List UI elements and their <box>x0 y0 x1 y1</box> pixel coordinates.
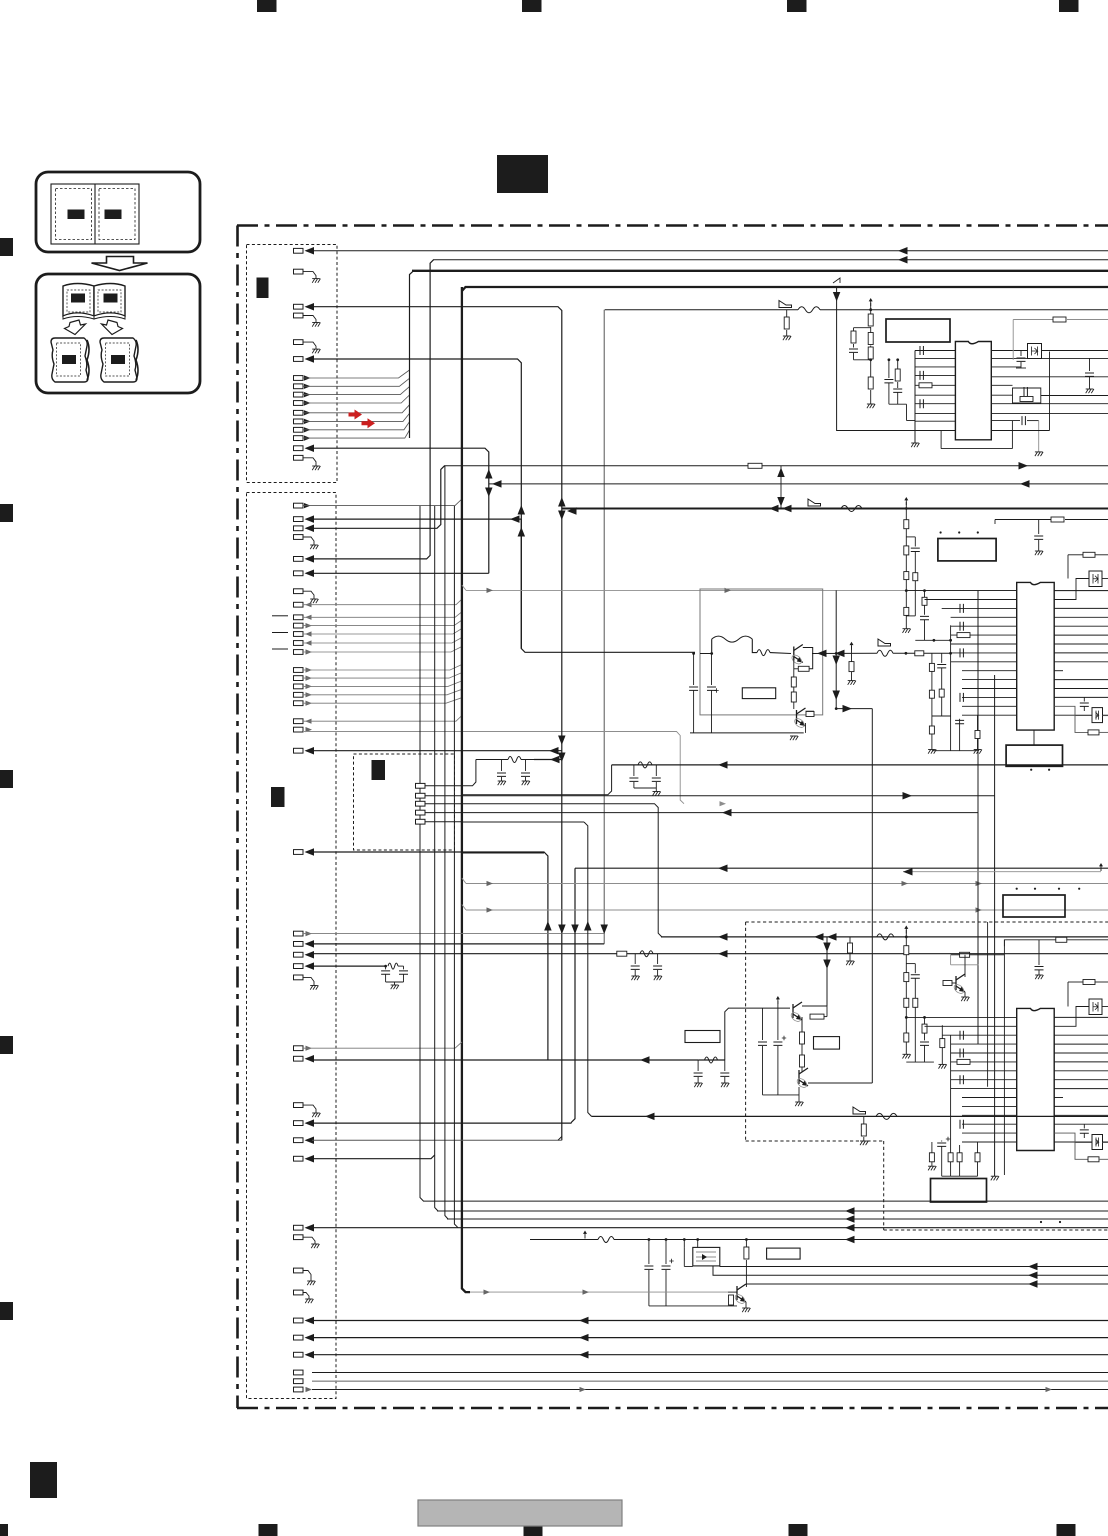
branch top link <box>854 327 871 329</box>
sub connector pin 5 <box>416 819 426 824</box>
IC3 AM tuner IC <box>1017 1008 1054 1150</box>
registration mark bottom left corner <box>0 1524 8 1536</box>
Q2 collector gray link <box>806 710 815 712</box>
FM block bottom rail <box>690 732 804 734</box>
arrow on bus y250 <box>898 247 908 255</box>
AM block cap 2 electrolytic <box>773 1042 782 1045</box>
IC1 left pin wire 7 <box>915 403 955 405</box>
IC3 left pin wire 5 <box>951 1052 1017 1054</box>
IC2 right pin wire 1 <box>1054 590 1108 592</box>
wire x575 corner to pin31 <box>312 1122 572 1124</box>
wire CN1-6 right then down at x521 <box>312 359 521 649</box>
IC3 right pin wire 7 <box>1054 1070 1108 1072</box>
CN2 pin 11 <box>294 632 304 637</box>
legend open book black block right <box>104 294 118 303</box>
wrap line y1159 with resistor <box>1075 1143 1088 1160</box>
wire crystal to right <box>1042 350 1108 352</box>
connector box CN2 dashed <box>247 493 337 1399</box>
resistor R-osc3 <box>870 346 872 348</box>
CN2 pin 33 <box>294 1156 304 1161</box>
CN2 pin 32 <box>294 1138 304 1143</box>
capacitor stack under IC3 2 <box>941 1139 943 1142</box>
sub connector pin 1 <box>416 783 426 788</box>
wire CN2-20 gray to x680 down to y804 <box>303 732 684 804</box>
arrow right at y708 <box>836 708 872 710</box>
wire y822 from bus to x588 <box>462 821 584 823</box>
wire IC1 row 430 to right <box>991 430 1049 432</box>
IC3 right pin wire 4 <box>1054 1043 1108 1045</box>
wire CN2-23 to x604 <box>303 933 604 935</box>
AM LC inductor <box>705 1057 718 1063</box>
FM rail y716 <box>932 715 951 717</box>
AM RC inductor <box>640 951 653 957</box>
feed segment y554 with resistor <box>1068 554 1083 556</box>
legend big down arrow <box>92 257 148 271</box>
AM branch capacitor <box>914 964 916 974</box>
vertical x978 down to AM section <box>977 590 979 1044</box>
bus bundle vertical x409 <box>410 271 414 438</box>
wire y853 mid <box>462 852 544 854</box>
IC1 right pin row 395 <box>991 394 1012 396</box>
registration mark top 1 <box>257 0 277 12</box>
FM power ladder top tick <box>905 498 907 505</box>
CN1 pin 2 ground <box>294 269 304 274</box>
CN2 pin 13 <box>294 650 304 655</box>
black page-number square bottom left <box>30 1462 57 1498</box>
capacitor on IC3 row 1080 <box>960 1075 963 1084</box>
LC2 inductor <box>638 762 652 768</box>
vertical x1049 right of IC1 <box>1049 352 1051 431</box>
wire CN2-24 to x604 corner <box>312 943 604 945</box>
squiggle on y508 <box>841 506 862 512</box>
legend torn page left <box>51 338 88 382</box>
gray line y883 from bus <box>462 878 466 884</box>
bus line y270 bold <box>412 270 1108 272</box>
bus line y287 bold from x462 <box>462 287 1108 291</box>
resistor R-osc5 <box>868 377 873 389</box>
FM branch capacitor <box>914 537 916 547</box>
resistor R-osc1 <box>868 314 873 326</box>
IC3 left pin wire 10 <box>962 1097 1017 1099</box>
legend spread black block right <box>105 210 122 220</box>
part label box FM <box>938 539 996 561</box>
FM cap x960 <box>959 719 961 751</box>
IC3 left pin wire 2 <box>925 1025 1017 1027</box>
AM ladder resistor 2 <box>904 973 909 982</box>
main bus vertical x462 bold <box>462 287 470 1292</box>
IC3 right pin wire 12 <box>1054 1114 1108 1116</box>
bundle vertical x445 <box>445 466 448 1219</box>
registration mark top 4 <box>1059 0 1079 12</box>
bus wire y1320 <box>312 1320 1108 1322</box>
CN2 pin 3 <box>294 526 304 531</box>
IC3 right pin wire 9 <box>1054 1088 1108 1090</box>
Q1 collector loop resistor <box>803 648 813 669</box>
IC2 left pin wire 13 <box>962 696 1017 698</box>
CN2 pin 40 <box>294 1352 304 1357</box>
wire CN1-7 into bus bundle <box>303 370 410 378</box>
IC3 left pin wire 12 <box>962 1114 1017 1116</box>
FM ladder ground <box>903 629 911 633</box>
capacitor above trimmer AM <box>1083 1124 1085 1128</box>
black section marker square top <box>497 155 548 193</box>
LC1 cap 2 <box>525 760 527 772</box>
wire IC2 bottom to label box <box>1033 730 1035 745</box>
legend open book dashed insets <box>67 290 90 312</box>
wire CN1-3 right then down at x562 <box>312 307 562 509</box>
sub connector pin 3 <box>416 801 426 806</box>
capacitor to ground x1039 <box>1038 940 1040 965</box>
sub connector dashed box <box>354 754 455 850</box>
arrow on y1060 <box>640 1056 650 1064</box>
CN2 pin 39 <box>294 1335 304 1340</box>
CN2 pin 24 <box>294 942 304 947</box>
resistor R-osc2 <box>870 327 872 333</box>
part label box AM block right <box>814 1037 840 1050</box>
FM rail y640 <box>915 639 950 641</box>
IC2 left pin wire 11 <box>962 679 1017 681</box>
AM vertical x951 <box>950 1035 952 1130</box>
trimmer AM <box>1054 1133 1092 1142</box>
IC3 right pin wire 1 <box>1054 1016 1108 1018</box>
legend torn page left dashed inset <box>57 343 81 376</box>
five vertical arrows cluster <box>544 921 552 931</box>
wire CN2-16 to bus bundle <box>303 681 462 687</box>
Q5 collector link <box>964 965 966 977</box>
LC2 cap 2 <box>655 765 657 776</box>
resistor to ground at x852 <box>851 653 853 661</box>
transistor Q5 cluster rail y955 <box>951 954 1005 956</box>
capacitor C-osc1 <box>853 344 855 348</box>
CN2 pin 37 ground <box>294 1290 304 1295</box>
legend rounded box 2 (split pages) <box>36 274 200 393</box>
CN2 pin 41 <box>294 1370 304 1375</box>
CN2 pin 20 <box>294 727 304 732</box>
FM ladder resistor 4 <box>904 607 909 615</box>
LC1 inductor <box>508 757 521 763</box>
feed resistor to ground <box>786 310 788 317</box>
CN2 pin 2 <box>294 517 304 522</box>
CN1 pin 5 ground <box>294 340 304 345</box>
AM RC cap 2 <box>657 954 659 964</box>
RC pair under junction x897 <box>897 360 899 369</box>
stub line left of pin 12 <box>272 648 288 650</box>
gray line y872 right <box>903 871 1101 873</box>
gray footer label bar <box>418 1500 622 1526</box>
IC3 right stub row 1097 <box>1054 1097 1063 1099</box>
CN2 pin 22 <box>294 850 304 855</box>
IC3 right pin wire 5 <box>1054 1052 1108 1054</box>
IC2 left pin wire 5 <box>951 625 1017 627</box>
CN2 pin 8 <box>294 602 304 607</box>
CN2 pin 31 <box>294 1121 304 1126</box>
part label box bottom <box>767 1248 801 1259</box>
crystal discriminator FM <box>1054 579 1089 600</box>
IC2 right pin wire 6 <box>1054 634 1108 636</box>
CN2 pin 38 <box>294 1318 304 1323</box>
bus y937 bold <box>661 936 1108 938</box>
IC1 left pin wire 10 <box>915 430 955 432</box>
CN2 pin 19 <box>294 719 304 724</box>
Q6 base line gray from bus <box>470 1291 728 1293</box>
IC3 right pin wire 13 <box>1054 1123 1108 1125</box>
wire CN2-21 to x562 junction <box>312 750 562 752</box>
LC2 cap 1 <box>633 765 635 776</box>
AM block bottom rail <box>763 1094 800 1096</box>
power tap ladder top section <box>870 299 872 306</box>
IC3 left pin wire 7 <box>951 1070 1017 1072</box>
legend torn page right <box>100 338 137 382</box>
parallel RC network top section <box>1013 388 1041 403</box>
wire CN2-6 to x489 <box>312 572 489 574</box>
transistor Q4 AM <box>799 1068 808 1086</box>
CN2 pin 30 ground <box>294 1103 304 1108</box>
wire CN2-33 to x435 up <box>312 1155 435 1159</box>
IC1 left pin wire 5 <box>915 384 955 386</box>
AM ladder branch link <box>906 963 915 965</box>
junction arrows x562 y750 <box>549 747 559 755</box>
vertical x521 wire to FM block <box>521 519 695 652</box>
capacitor on IC3 row 1035 <box>960 1031 963 1040</box>
vertical x872 long down to AM <box>871 709 873 1083</box>
coupler box side wires <box>683 1247 685 1266</box>
legend spread dashed page right <box>99 189 135 240</box>
IC2 right pin wire 5 <box>1054 625 1108 627</box>
Q4 output right <box>808 1082 872 1084</box>
crystal X1 <box>1028 344 1042 359</box>
registration mark left 5 <box>0 1302 13 1320</box>
bus line y259 <box>433 259 1108 261</box>
LC2 bottom loop and ground <box>634 787 656 789</box>
legend spread outer rect <box>51 184 139 244</box>
CN1 pin 3 <box>294 304 304 309</box>
Q3 load resistor <box>810 1014 824 1019</box>
CN2 pin 14 <box>294 668 304 673</box>
CN2 pin 21 <box>294 748 304 753</box>
Q6 base resistor <box>728 1291 737 1293</box>
capacitor on IC2 row 697 <box>960 693 963 702</box>
part label box AM block left <box>685 1031 720 1043</box>
AM LC output up to base line <box>725 1008 790 1060</box>
capacitor on IC2 row 653 <box>960 648 963 657</box>
junction arrows at x521 <box>518 505 526 515</box>
registration mark left 3 <box>0 770 13 788</box>
resistor stack under IC3 5 <box>977 1142 979 1153</box>
black marker square in sub connector box <box>372 760 386 780</box>
arrow on bus y259 <box>898 256 908 264</box>
CN1 pin 7 <box>294 376 304 381</box>
IC2 left pin wire 2 <box>925 599 1017 601</box>
cap branch x693 <box>692 652 695 655</box>
legend open book icon <box>63 284 125 320</box>
bus wire y1228 to right edge <box>312 1227 1108 1229</box>
registration mark top 3 <box>787 0 807 12</box>
IC2 left pin wire 1 <box>906 590 1016 592</box>
CN2 pin 23 <box>294 931 304 936</box>
vertical x562 corner to pin32 <box>558 1137 562 1141</box>
gray feed line y319 with resistor <box>1013 319 1053 321</box>
wire CN1-15 right then down at x489 <box>312 448 489 573</box>
capacitor on IC1 pin row 403 <box>920 399 923 408</box>
junction cluster x836 mid <box>812 652 877 654</box>
red service arrow 1 <box>349 410 363 420</box>
wire CN2-1 to bus <box>303 499 462 506</box>
arrow right on y466 <box>1019 462 1029 470</box>
transformer box feed wires <box>683 1238 686 1241</box>
dots above label box FM <box>940 531 942 533</box>
IC2 right stub row 670 <box>1054 670 1063 672</box>
CN2 pin 5 <box>294 557 304 562</box>
output line y1275 <box>713 1266 1108 1275</box>
line y813 to x978 down <box>425 812 978 814</box>
IC3 left pin wire 13 <box>962 1123 1017 1125</box>
Q3 collector from x827 <box>802 1005 827 1007</box>
resistor to ground x864 on y1116 <box>863 1116 865 1124</box>
junction x827 arrows down <box>826 937 828 1006</box>
wire CN2-13 to bus bundle <box>303 647 462 653</box>
IC2 left pin wire 10 <box>962 670 1017 672</box>
bus line y508 bold <box>562 508 1108 510</box>
capacitor beside crystal <box>1020 351 1022 357</box>
squiggle on y1116 <box>876 1113 897 1119</box>
stub line left of pin 11 <box>272 632 288 634</box>
ground under ladder <box>867 404 875 408</box>
bundle vertical x435 <box>435 506 438 1211</box>
bus y868 bold right <box>575 867 1108 869</box>
IC2 right pin wire 11 <box>1054 679 1108 681</box>
Q3 emitter chain resistor 1 <box>801 1017 803 1032</box>
output line y1284 <box>746 1283 1108 1285</box>
CN2 pin 1 <box>294 503 304 508</box>
CN2 pin 9 <box>294 615 304 620</box>
LC1 output to junction <box>534 759 562 761</box>
black marker square left margin mid <box>271 787 285 807</box>
resistor on IC2 row 635 <box>957 633 970 638</box>
row 1 line through ladders <box>905 589 908 592</box>
IC1 bottom pin row 421 capacitor <box>991 420 1020 422</box>
filter cap 1 bottom <box>648 1238 651 1241</box>
junction arrows x562 y508 <box>558 497 566 507</box>
CN2 pin 25 <box>294 952 304 957</box>
wire CN2-14 to bus bundle <box>303 665 462 671</box>
registration mark left 2 <box>0 504 13 522</box>
vertical x994 down to AM section <box>994 675 996 1176</box>
wire CN2-5 up at x430 to bus y259 <box>312 260 434 559</box>
IC2 right pin wire 13 <box>1054 696 1108 698</box>
CN1 pin 12 <box>294 419 304 424</box>
bundle vertical x420 <box>420 506 424 1201</box>
dots below label box AM <box>1040 1221 1042 1223</box>
schematic fold border dash-dot <box>237 226 1108 1409</box>
bus line y466 <box>444 465 1108 467</box>
vertical x548 lower <box>547 934 549 936</box>
arrow left on y954 <box>718 950 728 958</box>
IC1 right pin row 377 wire <box>991 376 1108 378</box>
legend torn page right black block <box>111 355 125 364</box>
LC1 cap 1 <box>501 760 503 772</box>
line y795 to x995 down <box>425 795 995 797</box>
IC3 right pin wire 6 <box>1054 1061 1108 1063</box>
hook arrow down from bus y287 <box>836 287 838 292</box>
AM mid line y1116 bold <box>592 1115 1108 1117</box>
wire CN2-18 to bus bundle <box>303 698 462 704</box>
IC3 left pin wire 9 <box>951 1088 1017 1090</box>
LC filter AM line <box>698 1059 725 1061</box>
CN2 pin 4 ground <box>294 535 304 540</box>
IC3 right pin wire 8 <box>1054 1079 1108 1081</box>
wire CN2-22 to x548 down <box>312 852 548 1060</box>
FM ladder branch link <box>906 536 915 538</box>
CN2 pin 35 ground <box>294 1235 304 1240</box>
AM ladder resistor 4 <box>904 1033 909 1042</box>
gray line y910 from bus <box>462 905 466 911</box>
IC2 right pin wire 3 <box>1054 607 1108 609</box>
IC2 right pin wire 4 <box>1054 616 1108 618</box>
wire CN1-9 into bus bundle <box>303 387 410 395</box>
IC3 left pin wire 1 <box>906 1016 1016 1018</box>
AM LC cap 1 <box>697 1060 699 1071</box>
ground drop right of IC1 <box>1038 421 1040 452</box>
long vertical x1004 <box>1003 940 1005 1175</box>
IC2 left pin wire 3 <box>942 607 1017 609</box>
resistor stack under IC3 1 <box>931 1142 933 1153</box>
vertical x562 long <box>561 509 563 1141</box>
FM res x977 <box>977 715 979 730</box>
IC3 left pin wire 4 <box>951 1043 1017 1045</box>
ground under IC1 left bus <box>911 443 919 447</box>
wire y927 guide into enclosure <box>745 926 747 928</box>
cap branch x711 electrolytic <box>710 652 713 655</box>
CN2 pin 12 <box>294 641 304 646</box>
IC3 right pin wire 11 <box>1054 1105 1108 1107</box>
dots above label box AM <box>1016 888 1018 890</box>
IC1 left pin wire 4 <box>915 374 955 376</box>
crystal discriminator AM <box>1054 1007 1089 1027</box>
Q5 base resistor <box>943 981 952 986</box>
resistor to ground x850 AM <box>849 937 851 943</box>
stack bottom rail into label box <box>942 1175 978 1177</box>
AM rail y1062 <box>906 1061 934 1063</box>
registration mark left 4 <box>0 1036 13 1054</box>
IC2 left pin wire 15 <box>962 714 1017 716</box>
AM power ladder tick <box>905 927 907 934</box>
wire CN1-11 into bus bundle <box>303 405 410 413</box>
FM sub ladder x942 <box>941 653 943 663</box>
legend spread dashed page left <box>56 189 92 240</box>
vertical x836 down with arrows <box>835 590 837 708</box>
part label box top <box>886 319 950 342</box>
wire CN2-3 up at x441 to bus y466 <box>312 466 445 529</box>
FM ladder resistor 3 <box>904 572 909 580</box>
CN1 pin 1 <box>294 248 304 253</box>
FM feed line y653 with jumper and squiggle <box>878 639 891 646</box>
transistor Q3 AM <box>793 1002 802 1020</box>
Q3 emitter chain resistor 2 <box>801 1044 803 1055</box>
collector resistor bottom <box>745 1238 748 1241</box>
capacitor to ground under y519 <box>1038 520 1040 535</box>
wire CN2-21 junction to LC1 <box>561 750 563 752</box>
CN2 pin 10 <box>294 623 304 628</box>
AM ladder ground <box>903 1054 911 1058</box>
vertical x575 <box>571 868 575 1122</box>
arrow left on y868 <box>718 864 728 872</box>
Q2 emitter to bottom rail <box>805 723 807 733</box>
wire CN2-32 to x562 <box>312 1139 562 1141</box>
capacitor on IC3 row 1053 <box>960 1049 963 1058</box>
CN1 pin 6 <box>294 357 304 362</box>
AM LC cap 2 <box>724 1060 726 1071</box>
Q2 ground <box>790 736 798 740</box>
